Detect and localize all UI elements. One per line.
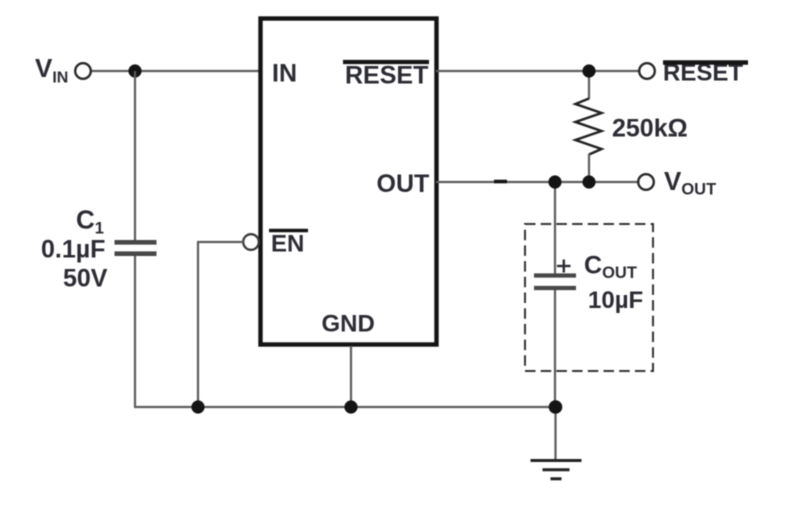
node: VIN / C1 junction dot bbox=[128, 64, 141, 77]
EN pin inverting bubble bbox=[243, 234, 259, 250]
node: resistor bottom junction dot bbox=[582, 175, 595, 188]
wire: COUT bottom plate to ground rail bbox=[554, 290, 556, 407]
IC U1 (voltage regulator) box bbox=[261, 19, 437, 345]
wire: C1 bottom plate to ground rail bbox=[134, 256, 136, 407]
wire: VIN terminal to IC IN pin bbox=[91, 70, 260, 72]
node: COUT junction dot bbox=[548, 175, 561, 188]
node: GND / rail junction dot bbox=[344, 400, 357, 413]
label RESET (right, with overline) bbox=[663, 60, 748, 87]
svg-text:10µF: 10µF bbox=[588, 287, 643, 314]
wire: OUT pin to VOUT terminal bbox=[436, 181, 638, 183]
plus mark of COUT bbox=[557, 260, 571, 273]
svg-text:EN: EN bbox=[271, 231, 304, 258]
wire: OUT node down to COUT top plate bbox=[554, 182, 556, 274]
terminal VIN (open circle) bbox=[75, 63, 91, 79]
node: EN / rail junction dot bbox=[191, 400, 204, 413]
wire: ground rail bbox=[134, 406, 556, 408]
wire: bold dash segment on OUT wire bbox=[494, 180, 507, 184]
svg-text:250kΩ: 250kΩ bbox=[612, 115, 688, 143]
node: rail / ground junction dot bbox=[549, 400, 563, 414]
svg-text:VOUT: VOUT bbox=[664, 166, 716, 199]
terminal RESET (open circle) bbox=[639, 63, 655, 79]
wire: GND pin down to ground rail bbox=[350, 346, 352, 407]
svg-text:COUT: COUT bbox=[584, 252, 637, 283]
svg-text:IN: IN bbox=[272, 60, 297, 88]
wire: RESET pin to RESET terminal bbox=[436, 70, 639, 72]
svg-text:C1: C1 bbox=[76, 205, 104, 238]
pin label EN (inside IC, with overline) bbox=[269, 231, 308, 258]
wire: VIN node down to C1 top plate bbox=[134, 71, 136, 241]
pin label RESET (inside IC, with overline) bbox=[343, 62, 429, 90]
capacitor COUT (polarized) bbox=[534, 276, 576, 289]
resistor R 250k (zigzag) bbox=[576, 99, 602, 155]
svg-text:0.1µF: 0.1µF bbox=[41, 236, 105, 264]
wire: EN bubble left and down to ground rail bbox=[198, 242, 244, 407]
capacitor C1 bbox=[115, 242, 157, 253]
wire: resistor bottom stub bbox=[588, 154, 590, 182]
svg-text:OUT: OUT bbox=[377, 170, 430, 198]
wire: rail junction down to ground symbol bbox=[554, 407, 556, 460]
svg-text:VIN: VIN bbox=[35, 53, 68, 87]
ground symbol bbox=[531, 461, 582, 479]
dashed box around COUT bbox=[525, 224, 653, 371]
node: RESET / resistor junction dot bbox=[582, 64, 595, 77]
wire: resistor top stub bbox=[588, 71, 590, 99]
svg-text:50V: 50V bbox=[63, 265, 108, 293]
svg-text:GND: GND bbox=[322, 311, 375, 338]
svg-text:RESET: RESET bbox=[345, 62, 428, 90]
terminal VOUT (open circle) bbox=[638, 174, 654, 190]
